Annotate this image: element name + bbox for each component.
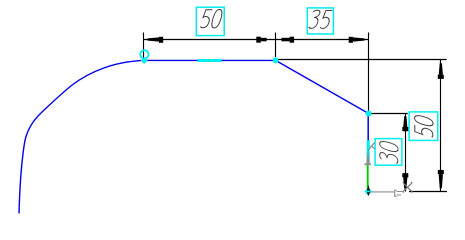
dimension 50 vertical: bottom extension line [409,191,447,193]
dim 50h right arrow [256,37,266,43]
label box 35 [307,8,333,34]
dimension 50/35 dimension line [144,39,369,41]
label box 50 horizontal [196,7,224,35]
corner1 point marker [273,57,279,63]
phantom gray Y snap glyph [368,143,375,151]
dimension 35 extension line at corner2 [368,33,370,113]
cursor X glyph [403,183,413,193]
contour: top horizontal segment [144,59,276,61]
midpoint highlight on horizontal segment [198,59,222,62]
dim 35 left arrow [282,37,295,43]
dimension 30: dimension line [405,114,407,192]
dim 50v top arrow [438,63,444,79]
dimension 50 vertical: top extension line [277,59,447,61]
phantom gray extension line (bottom) [371,191,395,193]
corner2 point marker [366,111,372,117]
phantom gray arrow on vertical line [364,150,371,166]
dimension 50/35 shared extension line at corner1 [275,33,277,58]
midpoint highlight on vertical segment [367,140,370,164]
dimension 50 vertical: dimension line [440,60,442,192]
dim 50h left arrow [148,37,164,43]
endpoint black double arrow [367,185,370,196]
dim 50v bottom arrow [438,170,444,188]
dim 30 top arrow [402,116,408,131]
tangent point circle marker [140,50,148,58]
contour: diagonal segment [276,60,369,113]
label box 50 vertical [409,112,438,140]
dimension 50 horizontal: extension line left [143,33,145,59]
contour: left spline curve [19,60,144,213]
dimension 30: top extension line [372,113,408,115]
contour: vertical segment upper part (blue) [367,114,369,153]
dim 35 right arrow [349,37,365,43]
dim 30 bottom arrow [402,173,408,188]
contour: vertical segment lower part (green, selected) [367,152,369,191]
snap indicator bracket glyph near cursor [395,190,403,196]
tangent point diamond marker [141,57,148,64]
endpoint diamond marker [364,188,372,196]
label box 30 [375,139,402,166]
